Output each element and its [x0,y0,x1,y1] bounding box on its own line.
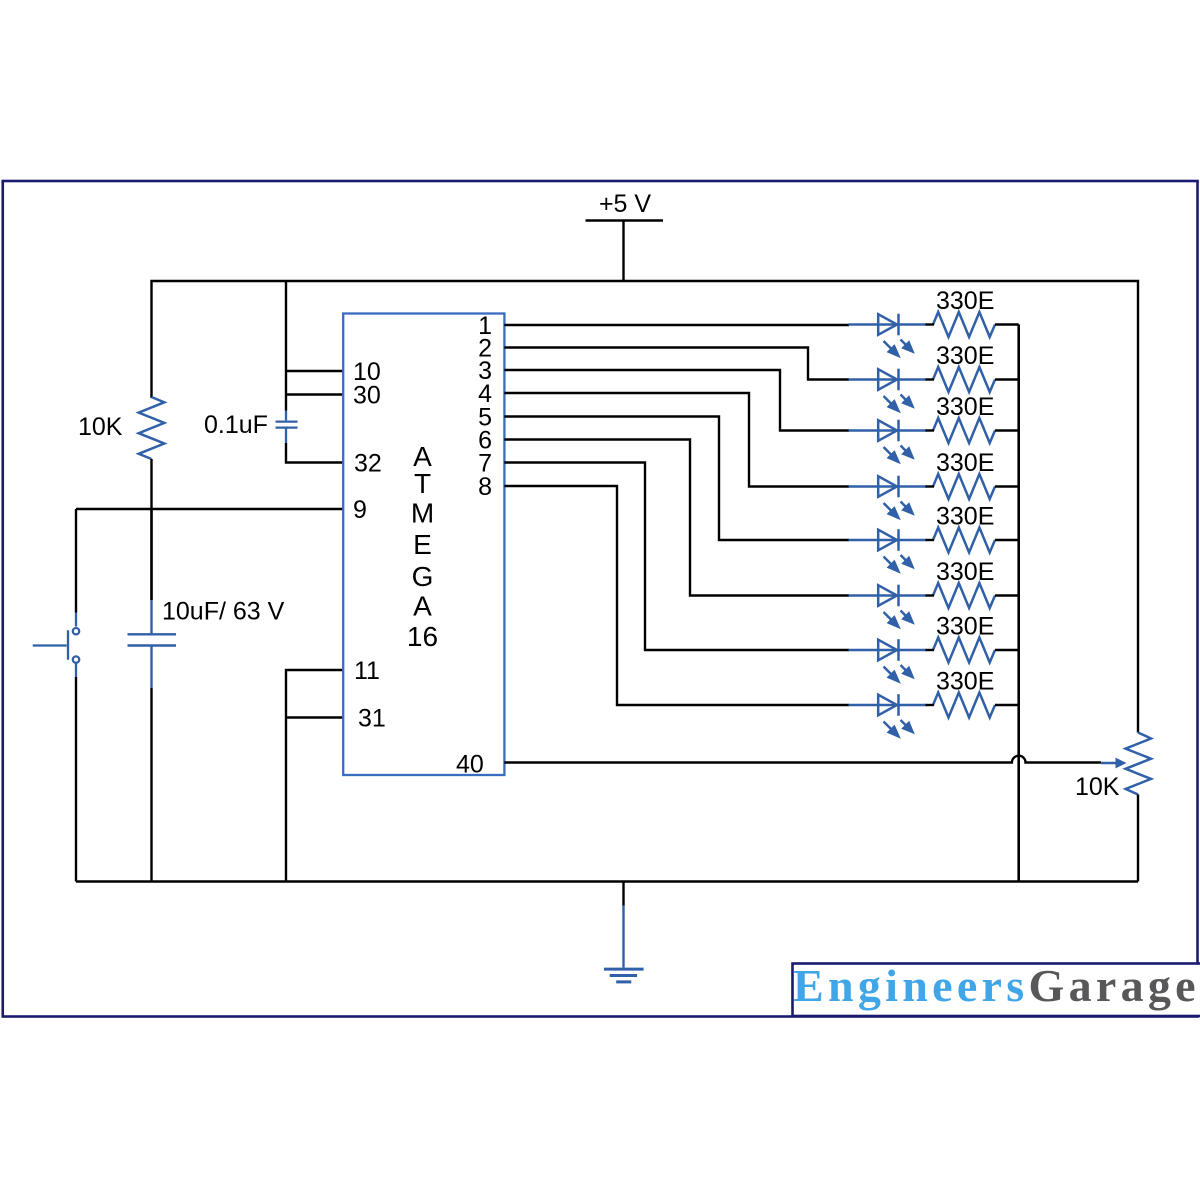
LED D3 [849,420,927,465]
potentiometer wiper arrow [1101,758,1127,769]
wire LED D5 cathode to R5 [926,539,935,541]
wire LED D4 cathode to R4 [926,485,935,487]
LED D7 [849,639,927,684]
svg-text:330E: 330E [936,613,994,641]
resistor R2 330E [933,367,995,392]
wire 10uF to ground rail [150,688,152,882]
resistor R3 330E [933,418,995,443]
ground [604,906,644,982]
push button (reset) [33,613,80,678]
wire LED D8 cathode to R8 [926,704,935,706]
svg-text:330E: 330E [936,287,994,315]
svg-text:31: 31 [358,705,386,733]
wire R8 to cathode bus [995,704,1019,706]
capacitor 10uF/63V [128,600,177,688]
svg-text:+5 V: +5 V [599,190,651,218]
wire rail to ground symbol [622,882,624,906]
wire LED D7 cathode to R7 [926,649,935,651]
wire R6 to cathode bus [995,594,1019,596]
svg-text:330E: 330E [936,668,994,696]
resistor R8 330E [933,693,995,718]
svg-text:G: G [412,561,434,592]
svg-text:16: 16 [407,621,438,652]
wire R5 to cathode bus [995,539,1019,541]
svg-text:0.1uF: 0.1uF [204,411,268,439]
wire LED D1 cathode to R1 [926,323,935,325]
resistor R7 330E [933,638,995,663]
resistor R6 330E [933,583,995,608]
wire R2 to cathode bus [995,378,1019,380]
pin labels 1-8 [478,312,492,501]
LED D5 [849,529,927,574]
potentiometer 10K [1126,733,1151,795]
wire pin8 to LED D8 [504,486,849,705]
wire LED D2 cathode to R2 [926,378,935,380]
svg-text:A: A [413,591,432,622]
LED D6 [849,585,927,630]
wire pin6 to LED D6 [504,440,849,596]
IC U1 ATMEGA16 [343,314,504,776]
svg-text:32: 32 [354,450,382,478]
+5V supply bar [586,219,664,221]
label ATMEGA16 (IC name) [407,441,438,652]
wire pin7 to LED D7 [504,463,849,651]
svg-text:M: M [411,498,434,529]
resistor R4 330E [933,474,995,499]
LED D8 [849,694,927,739]
wire button to ground rail [75,677,77,882]
resistor R5 330E [933,528,995,553]
svg-text:10K: 10K [78,413,123,441]
wire rail to pin10/pin30 branch [286,281,344,411]
wire pin11/pin31 to ground rail [286,670,344,882]
svg-text:10K: 10K [1075,773,1120,801]
wire resistor bottom to 10uF cap [150,459,152,600]
svg-text:30: 30 [353,382,381,410]
svg-text:330E: 330E [936,449,994,477]
wire R3 to cathode bus [995,429,1019,431]
LED D2 [849,369,927,414]
wire top VCC rail [152,281,1139,733]
svg-text:T: T [414,468,431,499]
wire LED D6 cathode to R6 [926,594,935,596]
wire cap to pin32 [286,443,344,463]
svg-text:330E: 330E [936,503,994,531]
LED D4 [849,476,927,521]
wire R7 to cathode bus [995,649,1019,651]
capacitor 0.1uF [276,411,298,444]
wire R1 to cathode bus [995,323,1019,325]
EngineersGarage logo [793,960,1200,1016]
wire +5V to top rail [622,221,624,282]
svg-text:40: 40 [456,751,484,779]
wire LED D3 cathode to R3 [926,429,935,431]
wire pin40 to potentiometer wiper (hop over bus) [504,756,1101,763]
svg-text:8: 8 [478,473,492,501]
wire pin4 to LED D4 [504,393,849,487]
wire pin2 to LED D2 [504,348,849,380]
LED D1 [849,314,927,359]
wire R4 to cathode bus [995,485,1019,487]
svg-text:EngineersGarage: EngineersGarage [793,960,1200,1011]
wire pin3 to LED D3 [504,370,849,431]
svg-text:10uF/ 63 V: 10uF/ 63 V [162,598,285,626]
resistor 10K pull-up (left) [139,397,165,459]
wire pin1 to LED D1 [504,324,849,326]
wire pin9 reset net [76,509,344,613]
wire bottom ground rail [76,880,1138,883]
svg-text:330E: 330E [936,558,994,586]
wire pin5 to LED D5 [504,417,849,541]
svg-text:9: 9 [353,496,367,524]
wire cathode bus vertical [1017,325,1020,882]
svg-text:330E: 330E [936,393,994,421]
svg-text:330E: 330E [936,342,994,370]
wire pot bottom to ground rail [1137,795,1139,882]
resistor R1 330E [933,312,995,337]
svg-text:E: E [413,529,432,560]
svg-text:11: 11 [354,657,380,685]
